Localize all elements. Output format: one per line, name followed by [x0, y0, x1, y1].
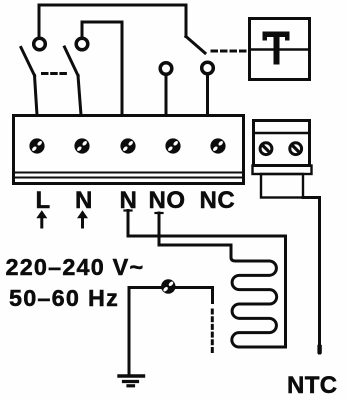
- label NO: [149, 187, 186, 214]
- switch S2 fixed contact: [76, 38, 88, 50]
- switch S1 arm: [21, 48, 35, 76]
- arrow mains input N: [77, 210, 88, 227]
- screw (earth terminal): [161, 279, 175, 293]
- switch S1 fixed contact: [34, 38, 46, 50]
- wire: [78, 76, 81, 116]
- screw terminal 2 (N): [74, 138, 89, 153]
- thermostat T symbol: [263, 32, 290, 65]
- label N (terminal 3): [120, 187, 137, 214]
- NTC terminal block: [253, 121, 312, 198]
- svg-text:220–240 V~: 220–240 V~: [6, 254, 145, 280]
- wire: [39, 5, 186, 38]
- ground: [119, 376, 144, 386]
- earth wire: [129, 288, 213, 376]
- thermostat box T1: [250, 19, 310, 80]
- svg-text:NC: NC: [200, 187, 236, 214]
- label L: [36, 187, 51, 214]
- wire: [156, 213, 232, 245]
- terminal block: [14, 116, 244, 184]
- svg-text:NO: NO: [149, 187, 186, 214]
- switch S2 arm: [65, 47, 79, 76]
- changeover contact NO: [160, 63, 172, 75]
- wire: [165, 76, 168, 116]
- dotted wire: [211, 310, 214, 353]
- label NC: [200, 187, 236, 214]
- dashed link to thermostat: [212, 50, 247, 53]
- heater element: [231, 245, 286, 347]
- mechanical coupling dashed link: [43, 72, 70, 75]
- wire: [82, 22, 122, 115]
- changeover switch arm: [186, 37, 205, 54]
- NTC block screw 2: [290, 143, 302, 155]
- arrow mains input L: [36, 210, 47, 227]
- NTC block screw 1: [260, 143, 272, 155]
- svg-text:NTC: NTC: [287, 372, 338, 399]
- svg-text:L: L: [36, 187, 51, 214]
- screw terminal 3 (N): [120, 138, 135, 153]
- label NTC: [287, 372, 338, 399]
- screw terminal 5 (NC): [210, 138, 225, 153]
- svg-text:50–60Hz: 50–60Hz: [9, 285, 119, 311]
- screw terminal 4 (NO): [165, 138, 180, 153]
- wire: [35, 76, 38, 116]
- svg-text:N: N: [75, 187, 92, 214]
- label 220-240 V~: [6, 254, 145, 280]
- label N: [75, 187, 92, 214]
- label 50-60 Hz: [9, 285, 119, 311]
- wire: [303, 198, 320, 354]
- wire: [125, 211, 286, 348]
- changeover contact NC: [202, 62, 214, 74]
- screw terminal 1 (L): [29, 138, 44, 153]
- wire: [206, 75, 209, 115]
